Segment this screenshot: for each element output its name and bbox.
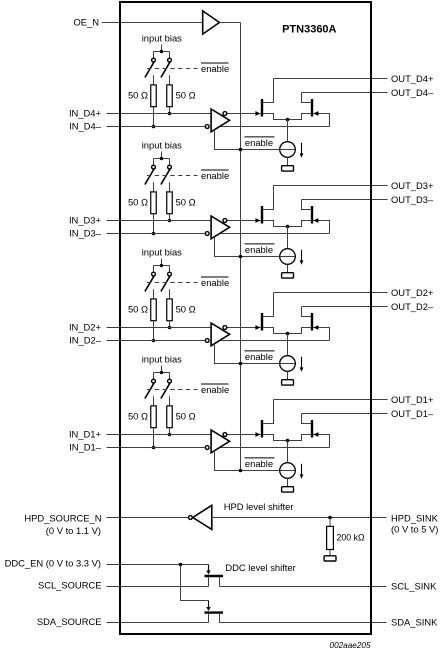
svg-text:IN_D3+: IN_D3+ [69,214,102,225]
chip boundary PTN3360A [120,2,371,634]
junction input-bias tee channel D4 [160,50,163,53]
junction enable bus channel D3 [239,255,243,259]
svg-text:SDA_SINK: SDA_SINK [391,617,438,628]
junction DDC_EN branch [179,563,183,567]
junction common source node channel D2 [286,332,290,336]
transistor Q_SCL gate bar [205,575,224,577]
resistor 50 ohm (plus input) channel D4 [167,85,173,107]
overline enable (output stage) channel D4 [245,136,275,138]
transistor Q1 (OUT+) bar channel D3 [261,206,263,224]
wire switch to resistor right channel D2 [169,289,171,299]
svg-text:enable: enable [201,277,229,288]
receiver buffer channel D3 [211,216,230,239]
wire node to current source channel D2 [287,334,289,356]
inverted output bubble channel D2 [223,326,227,330]
svg-text:PTN3360A: PTN3360A [282,24,336,36]
switch SW1 blade channel D2 [145,276,154,291]
wire input-bias tee bar channel D4 [154,51,170,53]
dashed enable control line channel D3 [147,175,198,177]
junction resistor right on IN+ channel D2 [168,326,172,330]
wire to right switch contact channel D1 [169,373,171,380]
svg-text:input bias: input bias [142,33,182,44]
wire input-bias stem channel D1 [161,366,163,373]
svg-text:OUT_D3+: OUT_D3+ [391,180,434,191]
wire input-bias tee bar channel D2 [154,265,170,267]
wire IN_D3- [107,233,205,235]
wire node to current source channel D1 [287,441,289,463]
junction resistor right on IN+ channel D3 [168,219,172,223]
wire Q2 drain to OUT- channel D2 [302,307,312,317]
svg-text:OE_N: OE_N [73,16,99,27]
wire receiver true output channel D1 [219,447,330,449]
wire Q1 source to common node channel D3 [263,221,288,227]
switch SW1 contact circle channel D3 [152,165,156,169]
wire receiver true output channel D2 [219,340,330,342]
switch SW2 contact circle channel D3 [168,165,172,169]
wire SDA_SINK [220,622,387,624]
wire OE buffer output to enable bus [219,22,240,24]
dashed enable control line channel D2 [147,282,198,284]
transistor Q1 (OUT+) bar channel D2 [261,313,263,331]
switch SW2 contact circle channel D4 [168,58,172,62]
wire current source to ground channel D3 [287,264,289,272]
junction enable bus channel D2 [239,362,243,366]
wire Q2 source to common node channel D2 [288,328,312,334]
current direction arrow channel D2 [301,357,303,368]
overline enable (switches) channel D3 [201,169,229,171]
svg-text:enable: enable [201,170,229,181]
inverted output bubble channel D1 [223,433,227,437]
junction resistor left on IN- channel D3 [152,232,156,236]
wire switch to resistor right channel D3 [169,182,171,192]
svg-text:OUT_D3–: OUT_D3– [391,194,434,205]
wire receiver inverted output channel D3 [227,220,261,222]
wire resistor left to IN- line channel D2 [153,321,155,341]
overline enable (switches) channel D1 [201,383,229,385]
svg-text:50 Ω: 50 Ω [128,304,148,315]
junction input-bias tee channel D2 [160,264,163,267]
wire switch to resistor left channel D2 [153,289,155,299]
resistor 50 ohm (plus input) channel D3 [167,192,173,214]
wire to 200k resistor [329,518,331,527]
svg-text:OUT_D2+: OUT_D2+ [391,287,434,298]
switch SW2 contact circle channel D2 [168,272,172,276]
resistor 50 ohm (minus input) channel D4 [151,85,157,107]
arrowhead into left output transistor channel D4 [255,111,260,116]
wire input-bias stem channel D4 [161,45,163,52]
wire receiver true output channel D3 [219,233,330,235]
svg-text:input bias: input bias [142,354,182,365]
wire Q2 drain to OUT- channel D3 [302,200,312,210]
wire to left switch contact channel D2 [153,266,155,273]
junction enable bus channel D1 [239,469,243,473]
ground symbol channel D4 [282,166,294,171]
svg-text:(0 V to 5 V): (0 V to 5 V) [391,524,438,535]
svg-text:enable: enable [201,384,229,395]
wire switch to resistor right channel D4 [169,75,171,85]
wire receiver inverted output channel D4 [227,113,261,115]
wire OE_N input [102,22,203,24]
wire current source to ground channel D1 [287,478,289,486]
arrowhead into right output transistor channel D1 [313,432,318,437]
wire Q1 drain to OUT+ channel D3 [263,186,274,210]
junction resistor left on IN- channel D4 [152,125,156,129]
wire Q_SDA drain stub [219,614,221,623]
wire IN_D1- [107,447,205,449]
switch SW2 blade channel D3 [161,169,170,184]
switch SW2 blade channel D2 [161,276,170,291]
arrowhead into right output transistor channel D4 [313,111,318,116]
switch SW2 blade channel D1 [161,383,170,398]
wire current source to ground channel D2 [287,371,289,379]
inverting input bubble channel D2 [205,339,209,343]
wire Q2 gate feed channel D4 [313,114,330,127]
wire current source to ground channel D4 [287,157,289,165]
wire HPD_SOURCE_N [107,517,189,519]
wire IN_D4+ [107,113,212,115]
svg-text:SCL_SINK: SCL_SINK [391,581,437,592]
junction resistor right on IN+ channel D1 [168,433,172,437]
wire SDA_SOURCE [107,622,209,624]
svg-text:50 Ω: 50 Ω [128,90,148,101]
wire resistor left to IN- line channel D1 [153,428,155,448]
wire to left switch contact channel D3 [153,159,155,166]
wire IN_D2+ [107,327,212,329]
inverting input bubble channel D4 [205,125,209,129]
svg-text:enable: enable [201,63,229,74]
resistor 50 ohm (minus input) channel D1 [151,406,157,428]
svg-text:OUT_D4+: OUT_D4+ [391,73,434,84]
current direction arrow channel D3 [301,250,303,261]
svg-text:enable: enable [245,137,273,148]
svg-text:IN_D2+: IN_D2+ [69,321,102,332]
wire resistor left to IN- line channel D3 [153,214,155,234]
junction resistor right on IN+ channel D4 [168,112,172,116]
wire Q1 drain to OUT+ channel D4 [263,79,274,103]
wire 200k resistor to ground [329,550,331,556]
dashed enable control line channel D4 [147,68,198,70]
transistor Q2 (OUT-) bar channel D3 [311,206,313,224]
wire Q2 drain to OUT- channel D4 [302,93,312,103]
ground symbol channel D2 [282,380,294,385]
svg-text:IN_D4+: IN_D4+ [69,107,102,118]
wire resistor right to IN+ line channel D3 [169,214,171,221]
wire switch to resistor left channel D1 [153,396,155,406]
wire switch to resistor left channel D4 [153,75,155,85]
svg-text:OUT_D4–: OUT_D4– [391,87,434,98]
overline enable (switches) channel D2 [201,276,229,278]
inverting input bubble channel D3 [205,232,209,236]
switch SW1 contact circle channel D2 [152,272,156,276]
inverting input bubble channel D1 [205,446,209,450]
svg-text:50 Ω: 50 Ω [128,197,148,208]
inverter bubble HPD level shifter [189,516,193,520]
junction common source node channel D4 [286,118,290,122]
wire Q_SDA source stub [208,614,210,623]
wire receiver enable leg channel D1 [215,451,296,471]
svg-text:IN_D4–: IN_D4– [69,121,102,132]
svg-text:IN_D1–: IN_D1– [69,442,102,453]
arrowhead into right output transistor channel D3 [313,218,318,223]
junction input-bias tee channel D1 [160,371,163,374]
wire to right switch contact channel D3 [169,159,171,166]
svg-text:50 Ω: 50 Ω [176,411,196,422]
wire switch to resistor right channel D1 [169,396,171,406]
dashed enable control line channel D1 [147,389,198,391]
svg-text:(0 V to 1.1 V): (0 V to 1.1 V) [46,525,101,536]
wire enable bus vertical [240,23,242,471]
wire Q1 source to common node channel D4 [263,114,288,120]
svg-text:DDC_EN (0 V to 3.3 V): DDC_EN (0 V to 3.3 V) [5,558,101,569]
switch SW1 contact circle channel D1 [152,379,156,383]
wire Q1 drain to OUT+ channel D2 [263,293,274,317]
resistor 50 ohm (minus input) channel D3 [151,192,157,214]
switch SW1 blade channel D1 [145,383,154,398]
wire Q_SCL drain stub [219,577,221,586]
transistor Q1 (OUT+) bar channel D1 [261,420,263,438]
transistor Q2 (OUT-) bar channel D4 [311,99,313,117]
wire OUT_D4- [302,92,388,94]
junction common source node channel D1 [286,439,290,443]
switch SW2 contact circle channel D1 [168,379,172,383]
wire input-bias stem channel D2 [161,259,163,266]
receiver buffer channel D1 [211,430,230,453]
resistor 50 ohm (minus input) channel D2 [151,299,157,321]
resistor 50 ohm (plus input) channel D2 [167,299,173,321]
wire Q2 source to common node channel D1 [288,435,312,441]
arrowhead into left output transistor channel D2 [255,325,260,330]
inverted output bubble channel D4 [223,112,227,116]
buffer U_OE (OE_N enable buffer) [203,11,220,34]
wire IN_D4- [107,126,205,128]
switch SW1 contact circle channel D4 [152,58,156,62]
wire IN_D3+ [107,220,212,222]
junction enable bus channel D4 [239,148,243,152]
wire resistor right to IN+ line channel D4 [169,107,171,114]
resistor 200 kOhm [327,526,334,549]
svg-text:OUT_D1+: OUT_D1+ [391,394,434,405]
wire DDC_EN to SDA gate [181,565,209,601]
wire OUT_D1+ [274,399,388,401]
wire to right switch contact channel D2 [169,266,171,273]
switch SW1 blade channel D4 [145,62,154,77]
wire Q2 source to common node channel D3 [288,221,312,227]
receiver buffer channel D2 [211,323,230,346]
junction HPD pull-down [328,516,332,520]
wire Q2 gate feed channel D3 [313,221,330,234]
wire gate arrow SDA transistor [208,601,210,608]
current direction arrow channel D1 [301,464,303,475]
wire Q2 source to common node channel D4 [288,114,312,120]
wire OUT_D1- [302,413,388,415]
overline enable (output stage) channel D3 [245,243,275,245]
svg-text:SCL_SOURCE: SCL_SOURCE [38,580,102,591]
ground symbol channel D1 [282,487,294,492]
wire IN_D2- [107,340,205,342]
ground symbol HPD [324,556,336,561]
wire OUT_D3+ [274,185,388,187]
svg-text:enable: enable [245,244,273,255]
svg-text:OUT_D1–: OUT_D1– [391,408,434,419]
transistor Q1 (OUT+) bar channel D4 [261,99,263,117]
wire switch to resistor left channel D3 [153,182,155,192]
svg-text:enable: enable [245,351,273,362]
svg-text:SDA_SOURCE: SDA_SOURCE [37,616,102,627]
wire input-bias stem channel D3 [161,152,163,159]
wire Q2 gate feed channel D2 [313,328,330,341]
wire input-bias tee bar channel D3 [154,158,170,160]
transistor Q2 (OUT-) bar channel D2 [311,313,313,331]
switch SW2 blade channel D4 [161,62,170,77]
svg-text:HPD level shifter: HPD level shifter [224,501,294,512]
svg-text:HPD_SINK: HPD_SINK [391,513,439,524]
arrowhead into left output transistor channel D3 [255,218,260,223]
wire Q_SCL source stub [208,577,210,586]
wire HPD_SINK [212,517,387,519]
wire OUT_D2+ [274,292,388,294]
junction resistor left on IN- channel D1 [152,446,156,450]
svg-text:IN_D1+: IN_D1+ [69,428,102,439]
svg-text:50 Ω: 50 Ω [176,197,196,208]
wire node to current source channel D3 [287,227,289,249]
svg-text:DDC level shifter: DDC level shifter [225,562,295,573]
svg-text:input bias: input bias [142,140,182,151]
svg-text:50 Ω: 50 Ω [128,411,148,422]
wire SCL_SOURCE [107,586,209,588]
wire receiver enable leg channel D3 [215,237,296,257]
wire to left switch contact channel D4 [153,52,155,59]
svg-text:50 Ω: 50 Ω [176,304,196,315]
ground symbol channel D3 [282,273,294,278]
current direction arrow channel D4 [301,143,303,154]
svg-text:200 kΩ: 200 kΩ [337,532,366,542]
svg-text:HPD_SOURCE_N: HPD_SOURCE_N [24,513,101,524]
inverted output bubble channel D3 [223,219,227,223]
wire IN_D1+ [107,434,212,436]
svg-text:IN_D2–: IN_D2– [69,335,102,346]
junction resistor left on IN- channel D2 [152,339,156,343]
wire receiver inverted output channel D1 [227,434,261,436]
wire Q2 gate feed channel D1 [313,435,330,448]
receiver buffer channel D4 [211,109,230,132]
wire resistor right to IN+ line channel D2 [169,321,171,328]
wire DDC_EN [107,564,209,566]
wire receiver enable leg channel D4 [215,130,296,150]
junction input-bias tee channel D3 [160,157,163,160]
overline enable (switches) channel D4 [201,62,229,64]
wire SCL_SINK [220,586,387,588]
current source I1 channel D2 [280,356,296,372]
svg-text:enable: enable [245,458,273,469]
transistor Q2 (OUT-) bar channel D1 [311,420,313,438]
wire receiver enable leg channel D2 [215,344,296,364]
switch SW1 blade channel D3 [145,169,154,184]
junction common source node channel D3 [286,225,290,229]
resistor 50 ohm (plus input) channel D1 [167,406,173,428]
overline enable (output stage) channel D2 [245,350,275,352]
svg-text:002aae205: 002aae205 [330,641,371,650]
current source I1 channel D1 [280,463,296,479]
wire gate arrow SCL transistor [208,565,210,571]
arrowhead into right output transistor channel D2 [313,325,318,330]
wire node to current source channel D4 [287,120,289,142]
overline enable (output stage) channel D1 [245,457,275,459]
wire to right switch contact channel D4 [169,52,171,59]
wire OUT_D2- [302,306,388,308]
wire Q1 drain to OUT+ channel D1 [263,400,274,424]
current source I1 channel D3 [280,249,296,265]
svg-text:input bias: input bias [142,247,182,258]
current source I1 channel D4 [280,142,296,158]
wire input-bias tee bar channel D1 [154,372,170,374]
wire Q1 source to common node channel D2 [263,328,288,334]
transistor Q_SDA gate bar [205,611,224,613]
wire resistor right to IN+ line channel D1 [169,428,171,435]
wire resistor left to IN- line channel D4 [153,107,155,127]
wire receiver true output channel D4 [219,126,330,128]
wire Q1 source to common node channel D1 [263,435,288,441]
wire OUT_D3- [302,199,388,201]
wire receiver inverted output channel D2 [227,327,261,329]
arrowhead into left output transistor channel D1 [255,432,260,437]
inverter U_HPD (HPD level shifter) [193,505,212,529]
svg-text:OUT_D2–: OUT_D2– [391,301,434,312]
svg-text:50 Ω: 50 Ω [176,90,196,101]
wire OUT_D4+ [274,78,388,80]
wire to left switch contact channel D1 [153,373,155,380]
svg-text:IN_D3–: IN_D3– [69,228,102,239]
wire Q2 drain to OUT- channel D1 [302,414,312,424]
